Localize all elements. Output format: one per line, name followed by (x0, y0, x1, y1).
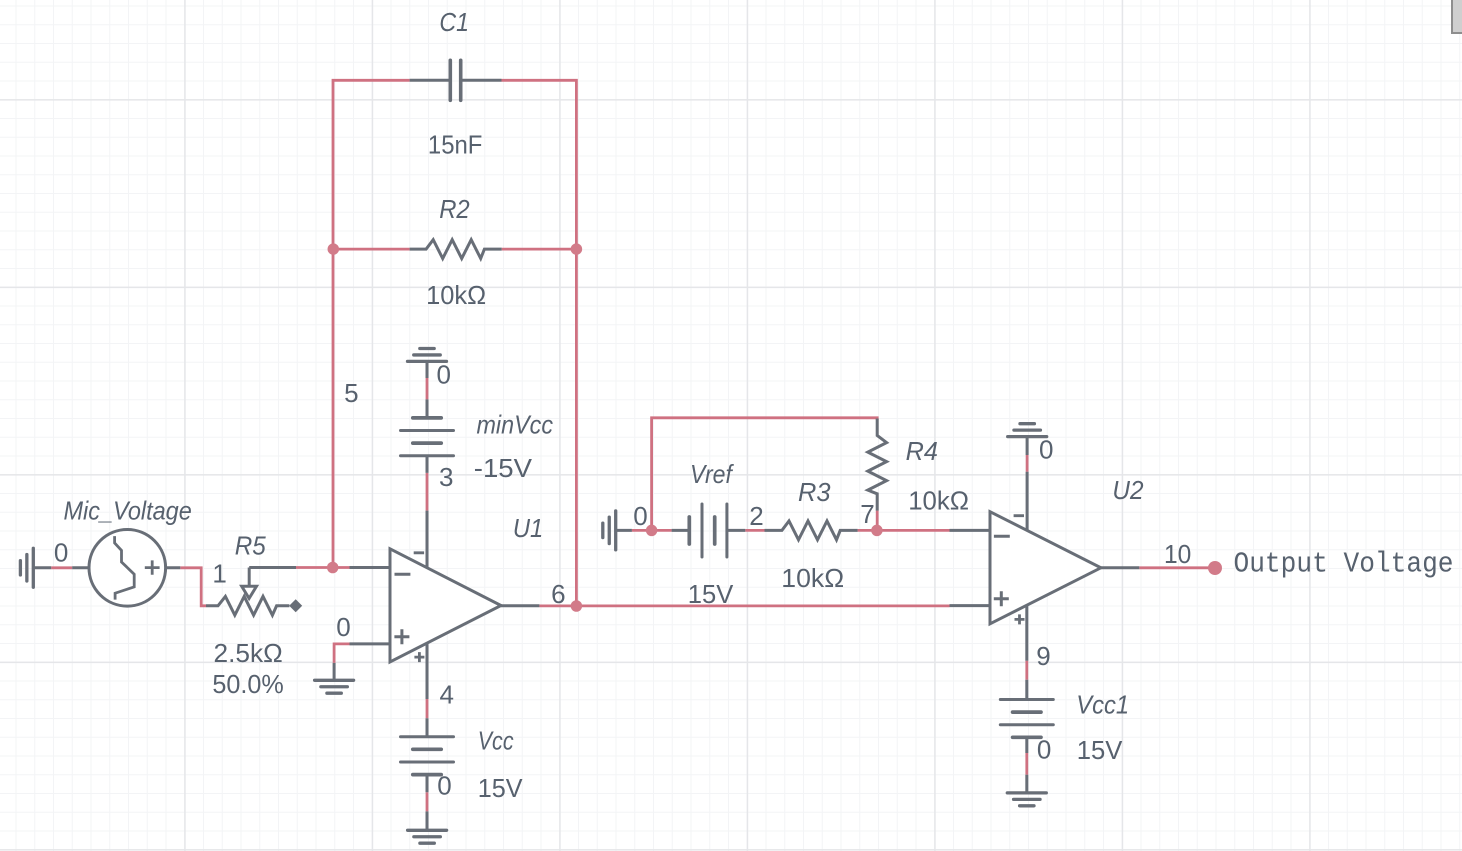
svg-text:9: 9 (1036, 641, 1050, 671)
svg-text:R4: R4 (906, 436, 938, 466)
svg-text:0: 0 (1037, 734, 1051, 764)
svg-text:0: 0 (437, 360, 451, 390)
svg-text:3: 3 (439, 462, 453, 492)
svg-text:-15V: -15V (474, 453, 533, 483)
svg-text:R2: R2 (439, 194, 470, 224)
svg-text:10kΩ: 10kΩ (781, 563, 844, 593)
svg-text:1: 1 (212, 559, 226, 589)
svg-text:0: 0 (437, 771, 451, 801)
svg-text:2.5kΩ: 2.5kΩ (214, 638, 283, 668)
svg-text:Mic_Voltage: Mic_Voltage (64, 496, 192, 526)
svg-text:U2: U2 (1112, 475, 1144, 505)
svg-text:50.0%: 50.0% (212, 669, 283, 699)
svg-text:minVcc: minVcc (477, 410, 554, 440)
svg-text:15V: 15V (688, 579, 734, 609)
svg-text:15V: 15V (478, 773, 523, 803)
svg-text:10: 10 (1164, 539, 1191, 569)
svg-text:Vcc1: Vcc1 (1076, 690, 1129, 720)
svg-text:Output Voltage: Output Voltage (1234, 547, 1454, 580)
svg-text:Vref: Vref (690, 459, 734, 489)
svg-text:R5: R5 (235, 531, 266, 561)
svg-text:U1: U1 (513, 513, 543, 543)
svg-text:15nF: 15nF (428, 130, 483, 160)
svg-text:0: 0 (633, 501, 647, 531)
svg-text:0: 0 (336, 612, 350, 642)
svg-text:6: 6 (551, 579, 565, 609)
svg-text:C1: C1 (439, 7, 469, 37)
svg-text:5: 5 (344, 378, 358, 408)
svg-text:7: 7 (860, 499, 874, 529)
svg-text:10kΩ: 10kΩ (908, 485, 969, 515)
svg-text:15V: 15V (1077, 735, 1123, 765)
svg-text:0: 0 (1039, 435, 1053, 465)
svg-text:10kΩ: 10kΩ (426, 280, 486, 310)
svg-text:Vcc: Vcc (478, 726, 514, 756)
svg-text:0: 0 (54, 538, 68, 568)
svg-text:4: 4 (440, 680, 454, 710)
svg-text:R3: R3 (798, 477, 831, 507)
svg-text:2: 2 (749, 501, 763, 531)
